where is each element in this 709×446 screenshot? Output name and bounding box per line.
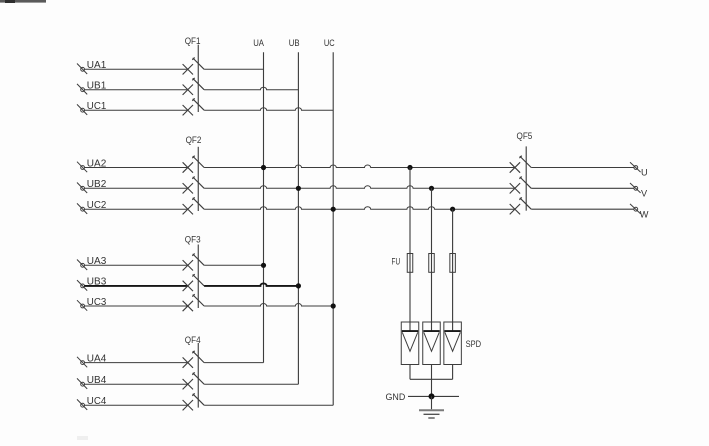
wire FU3 drop	[452, 209, 454, 330]
surge arrester SPD module 3	[444, 322, 462, 365]
wire UC4 output	[204, 404, 333, 406]
terminal UB3	[77, 280, 87, 291]
wire GND horizontal	[408, 395, 459, 397]
wire SPD1 bottom drop	[409, 365, 411, 380]
terminal UA4	[77, 357, 87, 368]
wire output U	[531, 167, 634, 169]
terminal UC1	[77, 104, 87, 115]
wire UB4 input	[84, 383, 188, 385]
terminal W	[630, 204, 641, 214]
svg-text:GND: GND	[386, 392, 406, 403]
wire UC3 output	[204, 304, 333, 307]
fuse FU2	[429, 254, 435, 273]
bus UA vertical	[263, 52, 265, 362]
wire UC2 input	[84, 208, 188, 210]
wire SPD join bar	[410, 378, 453, 380]
breaker QF1 pole UA1	[183, 58, 205, 75]
breaker QF3 linkage bar	[197, 245, 199, 309]
wire FU1 drop	[409, 168, 411, 331]
svg-text:SPD: SPD	[466, 339, 482, 349]
breaker QF4 pole UA4	[183, 351, 205, 368]
bus UC vertical	[332, 52, 334, 405]
svg-text:QF3: QF3	[185, 235, 201, 245]
breaker QF1 linkage bar	[197, 45, 199, 112]
svg-text:UA: UA	[253, 38, 264, 48]
terminal UB2	[77, 183, 87, 194]
wire UB2 output	[204, 186, 515, 189]
breaker QF5 pole V	[510, 177, 532, 194]
wire UB4 output	[204, 383, 298, 385]
terminal UA3	[77, 260, 87, 271]
surge arrester SPD module 1	[401, 322, 419, 365]
scan artifact top-left	[0, 0, 46, 3]
svg-text:U: U	[641, 168, 648, 178]
breaker QF2 linkage bar	[197, 147, 199, 211]
junction UC3 at x=333.2	[331, 303, 336, 308]
wire UA1 input	[84, 68, 188, 70]
junction UA2 at x=263.5	[261, 165, 266, 170]
breaker QF5 pole W	[510, 197, 532, 214]
terminal UC3	[77, 300, 87, 311]
wire UC1 input	[84, 109, 188, 111]
wire UA4 input	[84, 362, 188, 364]
wire UB1 input	[84, 89, 188, 91]
svg-text:FU: FU	[392, 257, 401, 267]
wire UB3 output	[204, 283, 298, 286]
wire UA4 output	[204, 362, 263, 364]
breaker QF3 pole UB3	[183, 274, 205, 291]
surge arrester SPD module 2	[423, 322, 441, 365]
wire UA3 input	[84, 264, 188, 266]
svg-text:QF5: QF5	[517, 131, 533, 141]
breaker QF4 pole UB4	[183, 372, 205, 389]
wire FU2 drop	[431, 188, 433, 330]
terminal V	[630, 183, 641, 193]
breaker QF1 pole UB1	[183, 78, 205, 95]
svg-text:QF2: QF2	[186, 135, 202, 145]
junction UA3 at x=263.5	[261, 263, 266, 268]
wire output V	[531, 187, 634, 189]
svg-text:QF1: QF1	[185, 36, 201, 46]
ground symbol	[419, 396, 444, 418]
breaker QF4 linkage bar	[197, 343, 199, 408]
svg-text:V: V	[641, 189, 648, 199]
terminal U	[630, 162, 641, 172]
breaker QF2 pole UC2	[183, 197, 205, 214]
junction UC2 at x=452.6	[450, 207, 455, 212]
junction UB2 at x=298.4	[296, 186, 301, 191]
wire UC4 input	[84, 404, 188, 406]
svg-text:UC: UC	[324, 38, 335, 48]
breaker QF5 linkage bar	[525, 146, 527, 210]
svg-text:UB: UB	[289, 38, 300, 48]
breaker QF2 pole UA2	[183, 156, 205, 173]
junction UA2 at x=410.0	[407, 165, 412, 170]
wire UB2 input	[84, 187, 188, 189]
breaker QF3 pole UA3	[183, 254, 205, 271]
breaker QF2 pole UB2	[183, 177, 205, 194]
junction UB2 at x=431.5	[429, 186, 434, 191]
wire UC1 output	[204, 108, 333, 111]
wire UA2 input	[84, 167, 188, 169]
wire UB3 input	[84, 285, 188, 287]
terminal UA2	[77, 162, 87, 173]
terminal UC4	[77, 399, 87, 410]
wire UC2 output	[204, 207, 515, 210]
terminal UC2	[77, 203, 87, 214]
terminal UB4	[77, 378, 87, 389]
wire UA1 output	[204, 68, 263, 70]
wire output W	[531, 208, 634, 210]
wire UB1 output	[204, 87, 298, 90]
junction GND node	[429, 393, 435, 399]
bus UB vertical	[297, 52, 299, 384]
wire SPD3 bottom drop	[452, 365, 454, 380]
junction UC2 at x=333.2	[331, 207, 336, 212]
terminal UA1	[77, 64, 87, 75]
svg-text:W: W	[640, 209, 649, 219]
fuse FU1	[407, 254, 413, 273]
breaker QF4 pole UC4	[183, 393, 205, 410]
terminal UB1	[77, 84, 87, 95]
wire UA2 output	[204, 165, 515, 168]
wire SPD2 to ground node	[431, 365, 433, 397]
fuse FU3	[450, 254, 456, 273]
scan artifact bottom-left	[77, 436, 88, 440]
breaker QF3 pole UC3	[183, 294, 205, 311]
wire UA3 output	[204, 264, 263, 266]
breaker QF1 pole UC1	[183, 98, 205, 115]
wire UC3 input	[84, 305, 188, 307]
junction UB3 at x=298.4	[296, 283, 301, 288]
breaker QF5 pole U	[510, 156, 532, 173]
